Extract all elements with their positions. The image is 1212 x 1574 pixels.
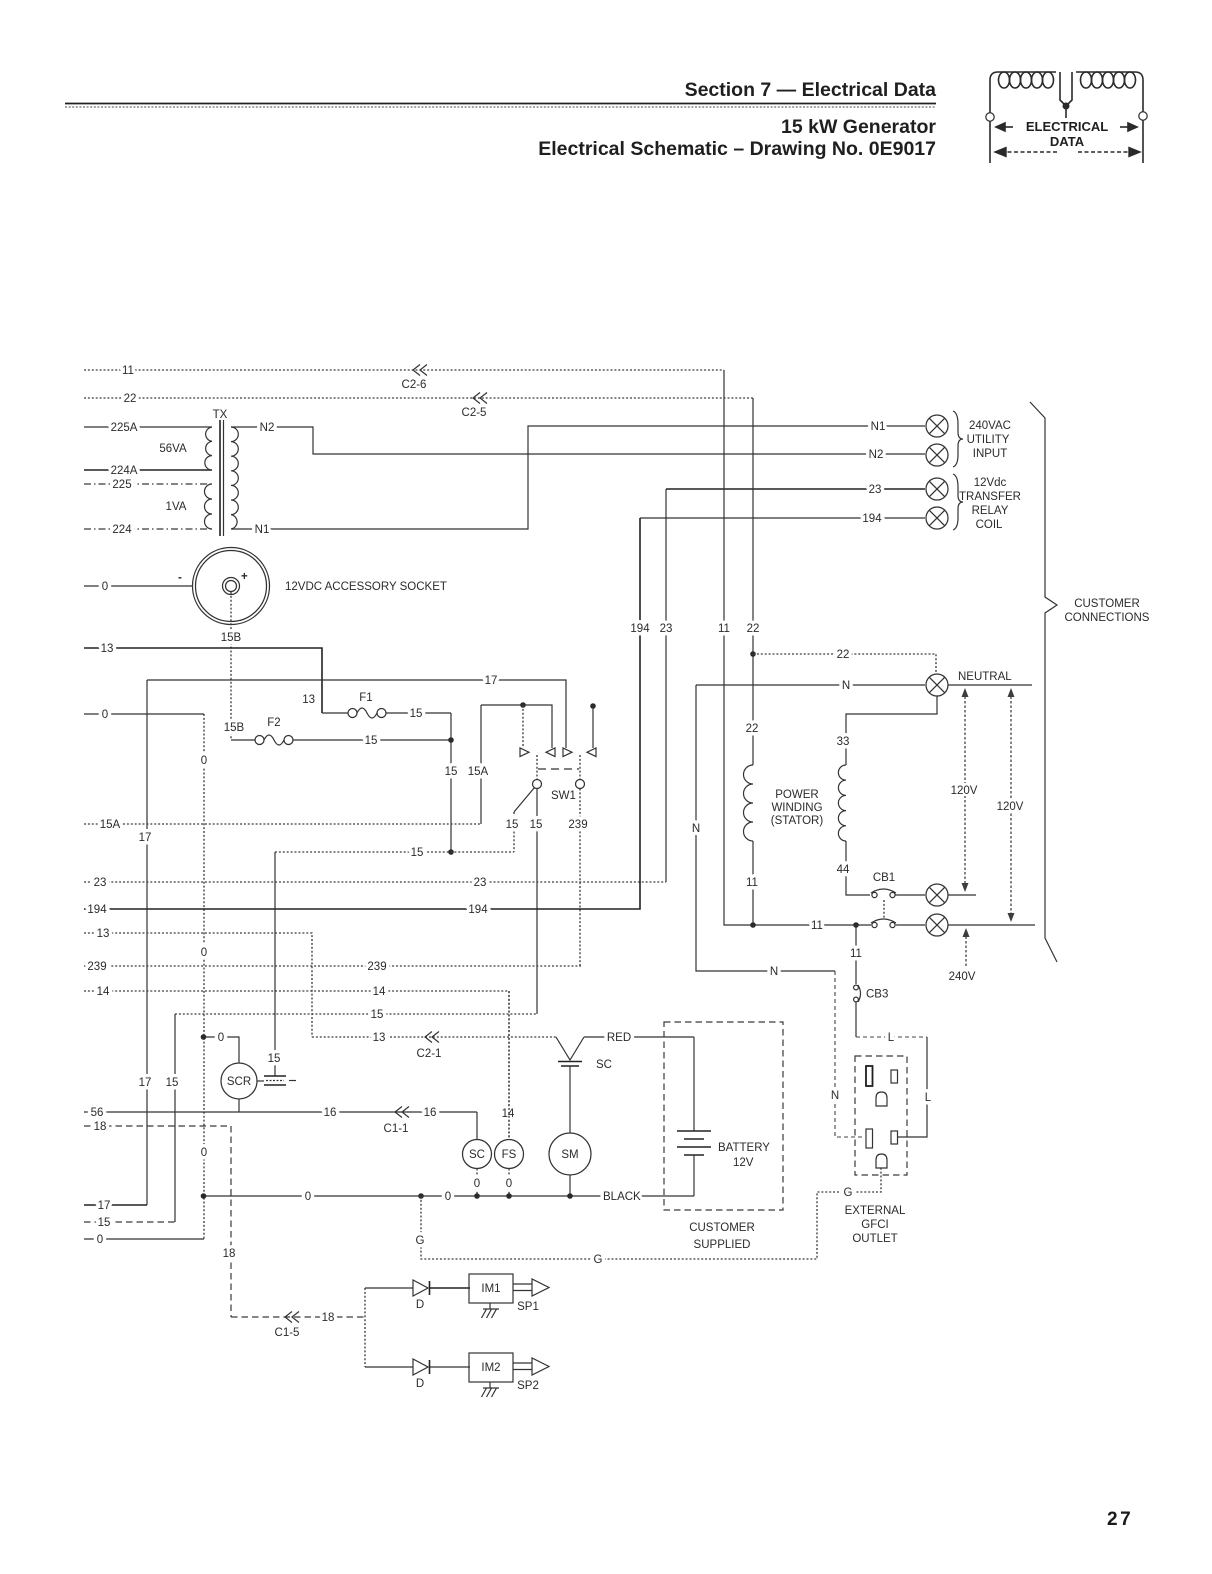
wire N2 from secondary: [231, 427, 925, 454]
svg-text:CONNECTIONS: CONNECTIONS: [1065, 612, 1150, 624]
svg-text:13: 13: [101, 643, 114, 655]
battery 12V: [677, 1130, 711, 1132]
svg-text:13: 13: [302, 694, 315, 706]
brace transfer relay: [953, 474, 963, 530]
wire 23 to relay: [666, 488, 925, 490]
wire N to GFCI: [835, 971, 865, 1137]
connector contacts above SW1: [520, 748, 596, 757]
wire 17 bottom stub: [84, 1204, 147, 1206]
svg-text:SCR: SCR: [227, 1076, 251, 1088]
wire 11 below winding: [752, 841, 754, 925]
svg-text:11: 11: [122, 365, 134, 377]
svg-text:13: 13: [373, 1032, 386, 1044]
svg-text:NEUTRAL: NEUTRAL: [958, 671, 1012, 683]
wire 0 row: [84, 713, 204, 715]
svg-text:224: 224: [112, 524, 132, 536]
wire G from black row: [421, 1168, 881, 1259]
wire 15 to capacitor: [274, 852, 276, 1076]
svg-text:12Vdc: 12Vdc: [974, 477, 1007, 489]
wire 16 to SC: [476, 1112, 478, 1139]
svg-text:1VA: 1VA: [166, 501, 187, 513]
wire to SW1 contacts: [481, 705, 552, 748]
svg-text:16: 16: [324, 1107, 337, 1119]
svg-text:239: 239: [87, 961, 106, 973]
svg-text:N: N: [770, 966, 778, 978]
wire N1 from secondary: [231, 426, 925, 529]
thyristor SC: [556, 1037, 584, 1060]
SW1 blade: [514, 788, 535, 813]
wire 33 from neutral: [846, 696, 937, 765]
svg-text:33: 33: [837, 736, 850, 748]
connector C2-1: [425, 1032, 439, 1043]
svg-text:BATTERY: BATTERY: [718, 1142, 770, 1154]
wire 13 row: [84, 648, 322, 713]
svg-text:17: 17: [98, 1200, 111, 1212]
junction dot 11 CB3 branch: [853, 922, 859, 928]
svg-text:N1: N1: [871, 421, 886, 433]
customer supplied box: [664, 1022, 783, 1210]
logo winding frame: [990, 72, 1143, 163]
transformer secondary winding: [231, 427, 238, 529]
wire 15A row: [84, 823, 481, 825]
svg-text:194: 194: [468, 904, 488, 916]
svg-text:C2-1: C2-1: [417, 1048, 442, 1060]
GFCI slot top left: [866, 1066, 873, 1086]
ignition module IM1: [469, 1274, 513, 1303]
logo terminal left: [986, 113, 994, 121]
svg-text:23: 23: [660, 623, 673, 635]
terminal 120V line1: [926, 884, 948, 906]
svg-text:TRANSFER: TRANSFER: [959, 491, 1021, 503]
terminal 23 relay: [926, 478, 948, 500]
header rule: [65, 103, 936, 105]
svg-text:(STATOR): (STATOR): [771, 815, 824, 827]
wire 15 dashed row: [275, 851, 514, 853]
svg-text:15: 15: [166, 1077, 179, 1089]
12VDC accessory socket: [193, 548, 270, 625]
wire 11 vertical: [724, 370, 871, 925]
svg-text:SP2: SP2: [517, 1380, 539, 1392]
svg-text:F2: F2: [267, 717, 280, 729]
svg-text:194: 194: [630, 623, 650, 635]
svg-text:G: G: [416, 1235, 425, 1247]
svg-text:27: 27: [1107, 1509, 1133, 1530]
wire contact drop: [522, 705, 524, 748]
terminal NEUTRAL: [926, 674, 948, 696]
svg-text:FS: FS: [502, 1149, 517, 1161]
svg-text:TX: TX: [213, 409, 228, 421]
svg-text:15 kW Generator: 15 kW Generator: [781, 116, 936, 138]
wire 15 bottom stub: [84, 1221, 175, 1223]
switch SW1: [536, 755, 538, 779]
svg-text:+: +: [241, 571, 248, 583]
svg-text:15: 15: [365, 735, 378, 747]
svg-text:44: 44: [837, 864, 850, 876]
wire 18 to C1-5: [231, 1316, 365, 1318]
svg-text:15: 15: [411, 847, 424, 859]
wire 224A: [84, 469, 212, 471]
wire split to ignition modules: [364, 1288, 366, 1367]
svg-text:C1-1: C1-1: [384, 1123, 409, 1135]
svg-text:C2-6: C2-6: [402, 379, 427, 391]
svg-text:15: 15: [371, 1009, 384, 1021]
wire 15 junction vertical: [450, 713, 452, 852]
svg-text:Section 7 — Electrical Data: Section 7 — Electrical Data: [685, 79, 937, 101]
svg-text:DATA: DATA: [1050, 134, 1085, 149]
svg-text:17: 17: [485, 675, 498, 687]
GFCI slot bottom right: [891, 1131, 898, 1144]
svg-text:11: 11: [850, 948, 862, 960]
svg-text:120V: 120V: [997, 801, 1024, 813]
GFCI outlet box: [855, 1056, 907, 1175]
logo small arrows: [996, 123, 1137, 131]
wire 17 row: [147, 680, 566, 748]
terminal 120V line2: [926, 914, 948, 936]
logo long arrows: [995, 148, 1140, 157]
svg-text:D: D: [416, 1378, 424, 1390]
svg-text:POWER: POWER: [775, 789, 818, 801]
svg-text:240VAC: 240VAC: [969, 420, 1011, 432]
wire 18 row: [84, 1125, 231, 1127]
svg-text:0: 0: [305, 1191, 311, 1203]
svg-text:23: 23: [474, 877, 487, 889]
connector C2-6: [413, 365, 427, 376]
junction dot 15: [448, 849, 454, 855]
wire 44 below winding: [846, 841, 870, 895]
wire 0 vertical: [203, 714, 205, 1239]
svg-text:0: 0: [201, 755, 207, 767]
wire 239 row: [84, 965, 581, 967]
wire battery minus: [693, 1155, 695, 1196]
customer connections bracket: [1030, 402, 1057, 962]
svg-text:CB1: CB1: [873, 872, 895, 884]
wire 15 row mid: [175, 1013, 537, 1015]
svg-text:UTILITY: UTILITY: [967, 434, 1010, 446]
logo center tap dot: [1063, 103, 1070, 110]
svg-text:G: G: [844, 1187, 853, 1199]
svg-text:23: 23: [869, 484, 882, 496]
wire 13 row to C2-1: [312, 1036, 556, 1038]
wire L vertical: [898, 1037, 927, 1137]
SCR: [221, 1063, 257, 1099]
connector C2-5: [473, 393, 487, 404]
svg-text:0: 0: [97, 1234, 103, 1246]
node dot SW1 right feed: [590, 703, 596, 709]
svg-text:15: 15: [268, 1053, 281, 1065]
svg-text:CUSTOMER: CUSTOMER: [689, 1222, 755, 1234]
wire 11 to CB3: [855, 925, 857, 984]
dimension 120V right: [1010, 692, 1012, 918]
logo terminal right: [1139, 112, 1147, 120]
GFCI slot bottom left: [866, 1129, 873, 1148]
svg-text:SC: SC: [469, 1149, 485, 1161]
svg-text:239: 239: [568, 819, 587, 831]
svg-text:18: 18: [223, 1248, 236, 1260]
junction dot 22 branch: [750, 651, 756, 657]
svg-text:15: 15: [530, 819, 543, 831]
terminal N2 utility: [926, 444, 948, 466]
svg-text:12VDC ACCESSORY SOCKET: 12VDC ACCESSORY SOCKET: [285, 581, 447, 593]
wire N row: [696, 684, 925, 686]
svg-text:Electrical Schematic – Drawing: Electrical Schematic – Drawing No. 0E901…: [538, 138, 936, 160]
junction dot stator 11: [750, 922, 756, 928]
svg-text:15A: 15A: [100, 819, 121, 831]
svg-text:12V: 12V: [733, 1157, 754, 1169]
svg-text:N: N: [692, 823, 700, 835]
wire 13 row lower: [84, 933, 312, 1037]
svg-text:SC: SC: [596, 1059, 612, 1071]
wire L from CB3: [855, 1002, 857, 1037]
svg-text:SM: SM: [561, 1149, 578, 1161]
svg-text:194: 194: [87, 904, 107, 916]
wire 0 to socket: [84, 585, 192, 587]
svg-text:G: G: [594, 1254, 603, 1266]
svg-text:15: 15: [410, 708, 423, 720]
wire red to battery: [693, 1037, 695, 1131]
svg-text:15B: 15B: [224, 722, 245, 734]
dimension 240V: [965, 932, 967, 966]
terminal N1 utility: [926, 415, 948, 437]
svg-text:N2: N2: [260, 422, 275, 434]
wire 11 top row: [84, 369, 724, 371]
svg-text:COIL: COIL: [976, 519, 1003, 531]
svg-text:SUPPLIED: SUPPLIED: [694, 1239, 751, 1251]
wire 22 top row: [84, 397, 753, 399]
svg-text:225: 225: [112, 479, 131, 491]
svg-text:13: 13: [97, 928, 110, 940]
wire 194 to relay: [640, 517, 925, 519]
svg-text:15B: 15B: [221, 632, 242, 644]
svg-text:15: 15: [506, 819, 519, 831]
terminal 194 relay: [926, 507, 948, 529]
connector C1-1: [395, 1107, 409, 1118]
svg-text:56: 56: [91, 1107, 104, 1119]
svg-text:225A: 225A: [111, 422, 138, 434]
GFCI ground top: [876, 1092, 887, 1106]
svg-text:120V: 120V: [951, 785, 978, 797]
wire 15 from SW1: [536, 789, 538, 1015]
wire RED: [584, 1036, 694, 1038]
svg-text:GFCI: GFCI: [861, 1219, 888, 1231]
svg-text:F1: F1: [359, 692, 372, 704]
svg-text:17: 17: [139, 832, 152, 844]
wire 22 branch to neutral: [753, 654, 936, 674]
ground IM2: [482, 1382, 500, 1397]
svg-text:INPUT: INPUT: [973, 448, 1008, 460]
svg-text:CB3: CB3: [866, 989, 888, 1001]
wire 56 row: [84, 1111, 477, 1113]
wire 15 left vertical: [174, 1014, 176, 1222]
svg-text:N2: N2: [869, 449, 884, 461]
transformer core: [219, 420, 221, 536]
svg-text:N: N: [831, 1090, 839, 1102]
svg-text:D: D: [416, 1299, 424, 1311]
wire 225: [84, 483, 212, 485]
wire contact drop right: [592, 706, 594, 748]
wire N vertical left: [696, 685, 835, 971]
svg-text:15: 15: [445, 766, 458, 778]
diode D upper: [413, 1280, 428, 1296]
svg-text:0: 0: [445, 1191, 451, 1203]
svg-text:0: 0: [474, 1178, 480, 1190]
wire 225A: [84, 426, 212, 428]
junction dot 15A feed: [520, 702, 526, 708]
svg-text:ELECTRICAL: ELECTRICAL: [1026, 119, 1108, 134]
svg-text:L: L: [925, 1092, 932, 1104]
spark plug arrow SP1: [513, 1283, 532, 1285]
wire 224: [84, 528, 212, 530]
wire neutral extension: [948, 684, 1032, 686]
svg-text:OUTLET: OUTLET: [852, 1233, 897, 1245]
svg-text:BLACK: BLACK: [603, 1191, 641, 1203]
svg-text:N: N: [842, 680, 850, 692]
svg-text:IM2: IM2: [481, 1362, 500, 1374]
svg-text:23: 23: [94, 877, 107, 889]
svg-text:194: 194: [862, 513, 882, 525]
transformer primary winding 1VA: [205, 484, 212, 529]
wire 14 row: [84, 991, 509, 1140]
wire SCR to capacitor: [257, 1080, 264, 1082]
svg-text:0: 0: [102, 709, 108, 721]
svg-text:0: 0: [506, 1178, 512, 1190]
connector C1-5: [285, 1312, 299, 1323]
svg-text:18: 18: [322, 1312, 335, 1324]
motor SM: [569, 1066, 571, 1133]
diode D lower: [413, 1359, 428, 1375]
svg-text:N1: N1: [255, 524, 270, 536]
svg-text:14: 14: [502, 1108, 515, 1120]
svg-text:C2-5: C2-5: [462, 407, 487, 419]
svg-text:SW1: SW1: [551, 790, 576, 802]
svg-text:15A: 15A: [468, 766, 489, 778]
svg-text:14: 14: [373, 986, 386, 998]
wire 15B socket to F2: [230, 592, 232, 740]
svg-text:22: 22: [747, 623, 760, 635]
brace utility input: [953, 411, 963, 467]
svg-text:18: 18: [94, 1121, 107, 1133]
wire 239 from SW1: [579, 789, 581, 967]
svg-text:22: 22: [124, 393, 137, 405]
junction dots black row: [201, 1193, 207, 1199]
spark plug arrow SP2: [513, 1362, 532, 1364]
svg-text:11: 11: [718, 623, 730, 635]
svg-text:-: -: [178, 572, 182, 584]
wire 23 row: [84, 881, 666, 883]
svg-text:56VA: 56VA: [159, 443, 187, 455]
wire 194 row: [84, 518, 640, 909]
ground IM1: [482, 1303, 500, 1318]
svg-text:15: 15: [98, 1217, 111, 1229]
svg-text:17: 17: [139, 1077, 152, 1089]
svg-text:224A: 224A: [111, 465, 138, 477]
svg-text:EXTERNAL: EXTERNAL: [845, 1205, 906, 1217]
stator winding left: [744, 765, 754, 841]
svg-text:22: 22: [746, 723, 759, 735]
wire 0 bottom stub: [84, 1238, 204, 1240]
svg-text:CUSTOMER: CUSTOMER: [1074, 598, 1140, 610]
svg-text:C1-5: C1-5: [275, 1327, 300, 1339]
wire CB1 pole1 to terminal: [895, 894, 925, 896]
dimension 120V left: [964, 692, 966, 888]
svg-text:IM1: IM1: [481, 1283, 500, 1295]
circuit breaker CB3: [854, 985, 859, 990]
wire SCR bottom: [238, 1099, 240, 1112]
wire 22 vertical: [752, 398, 754, 765]
svg-text:16: 16: [424, 1107, 437, 1119]
transformer primary winding 56VA: [205, 427, 212, 470]
GFCI slot top right: [891, 1070, 898, 1083]
svg-text:WINDING: WINDING: [771, 802, 822, 814]
svg-text:0: 0: [201, 1147, 207, 1159]
stator winding right: [838, 765, 846, 841]
svg-text:239: 239: [367, 961, 386, 973]
svg-text:22: 22: [837, 649, 850, 661]
svg-text:11: 11: [811, 920, 823, 932]
wire 18 vertical: [230, 1126, 232, 1317]
wire 0 stub to SCR: [201, 1034, 207, 1040]
svg-text:240V: 240V: [949, 971, 976, 983]
contactor SC: [463, 1140, 492, 1169]
svg-text:11: 11: [746, 877, 758, 889]
wire 17 left vertical: [146, 680, 148, 1205]
svg-text:SP1: SP1: [517, 1301, 539, 1313]
svg-text:0: 0: [218, 1032, 224, 1044]
fuel solenoid FS: [508, 991, 510, 1139]
ignition module IM2: [469, 1353, 513, 1382]
wire CB1 pole2 to terminal: [896, 924, 925, 926]
svg-text:RED: RED: [607, 1032, 631, 1044]
svg-text:0: 0: [201, 947, 207, 959]
wire 0 black row: [204, 1195, 695, 1197]
svg-text:0: 0: [102, 581, 108, 593]
svg-text:14: 14: [97, 986, 110, 998]
junction dot F1/F2: [448, 737, 454, 743]
svg-text:L: L: [888, 1032, 895, 1044]
capacitor 15: [264, 1075, 286, 1077]
svg-text:RELAY: RELAY: [972, 505, 1009, 517]
GFCI ground bottom: [876, 1154, 887, 1168]
